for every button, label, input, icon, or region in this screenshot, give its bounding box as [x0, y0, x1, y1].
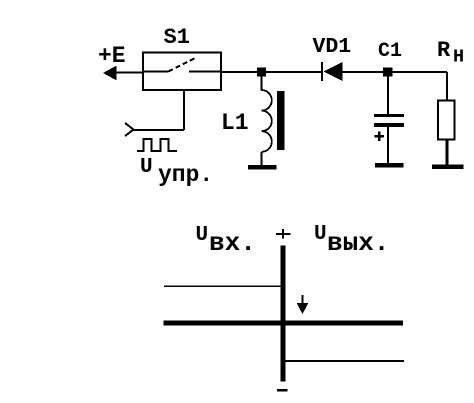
- node B junction: [383, 68, 393, 77]
- wire: control horizontal: [132, 129, 184, 131]
- wire: node B to R corner: [393, 71, 448, 73]
- minus below voltage axis: [277, 389, 288, 391]
- wire: node A to VD1: [266, 71, 322, 73]
- wire: node B down to C1: [387, 76, 389, 115]
- control input chevron: [125, 123, 134, 136]
- ground under C1: [375, 163, 404, 168]
- svg-text:VD1: VD1: [313, 35, 352, 59]
- svg-text:вх.: вх.: [209, 228, 256, 258]
- capacitor C1 bottom plate: [374, 123, 404, 127]
- svg-text:вых.: вых.: [327, 228, 389, 258]
- wire: node A down to L1: [261, 76, 263, 91]
- wire: resistor to ground: [446, 140, 449, 167]
- svg-text:H: H: [453, 47, 464, 68]
- switch S1 box: [143, 53, 221, 91]
- wire: control vertical from S1 box: [183, 90, 185, 130]
- wire: S1 to node A: [221, 71, 258, 73]
- wire: C1 to ground: [387, 127, 389, 164]
- svg-text:U: U: [314, 223, 327, 246]
- down arrow stem: [301, 295, 303, 305]
- switch S1 arm (dashed diagonal): [169, 58, 197, 72]
- wire: VD1 to node B: [342, 71, 384, 73]
- svg-text:R: R: [437, 38, 451, 63]
- resistor R_H body: [438, 101, 455, 140]
- wire: L1 to ground: [261, 152, 263, 166]
- svg-text:упр.: упр.: [158, 162, 213, 188]
- plus above voltage axis: [276, 229, 291, 239]
- switch fixed contact: [189, 71, 221, 73]
- svg-text:+E: +E: [98, 43, 126, 69]
- ground under L1: [248, 165, 277, 170]
- output level line (right, thin): [285, 360, 404, 362]
- diode VD1 cathode bar: [321, 62, 323, 81]
- node A junction: [257, 68, 266, 77]
- inductor L1 winding: [262, 90, 272, 152]
- voltage axis (thick vertical line): [280, 246, 285, 382]
- diode VD1 triangle: [325, 63, 343, 80]
- input level line (left, thin): [164, 285, 281, 287]
- capacitor C1 top plate: [374, 114, 404, 117]
- C1 polarity plus: [375, 131, 385, 141]
- svg-text:U: U: [196, 224, 209, 247]
- wire into switch moving contact: [143, 71, 169, 73]
- svg-text:S1: S1: [164, 25, 190, 50]
- wire: +E arrow to S1 box: [112, 72, 143, 74]
- svg-text:C1: C1: [378, 40, 402, 63]
- ground under R_H: [432, 165, 464, 170]
- svg-text:L1: L1: [221, 110, 249, 136]
- svg-text:U: U: [140, 156, 153, 179]
- control pulse waveform: [137, 139, 177, 151]
- wire: down to resistor: [446, 72, 448, 101]
- zero axis (thick horizontal line): [164, 320, 404, 325]
- arrowhead +E terminal: [104, 67, 116, 80]
- L1 core bar: [277, 91, 285, 150]
- down arrow head: [298, 304, 308, 314]
